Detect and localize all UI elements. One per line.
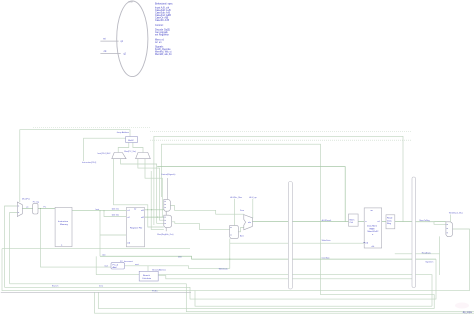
wire add outputs to muxes	[118, 143, 143, 153]
svg-text:Branch: Branch	[143, 274, 151, 277]
block branch calculate	[139, 271, 158, 281]
wire gray return row	[1, 291, 191, 293]
wire mux to PC	[22, 208, 32, 210]
wire instruction bus	[72, 210, 126, 212]
mux1 tick2	[164, 203, 166, 205]
svg-text:Mux(PC): Mux(PC)	[22, 198, 30, 200]
svg-text:q2: q2	[123, 54, 126, 56]
junction dot e	[100, 210, 101, 211]
block before DM	[349, 214, 359, 226]
mux1 tail	[165, 211, 167, 215]
wire RF out2	[145, 216, 164, 218]
svg-text:Instr[25:0] Sh2: Instr[25:0] Sh2	[97, 152, 111, 155]
svg-text:Register File: Register File	[130, 227, 143, 230]
wire branch calc out	[158, 276, 412, 279]
mux alusrc	[230, 226, 239, 239]
svg-text:PCSrc: PCSrc	[152, 291, 158, 293]
svg-text:SignImm: SignImm	[425, 262, 433, 264]
wire right mux out b	[145, 159, 162, 217]
pc mux tick1	[18, 205, 19, 207]
svg-text:Ctrl: Ctrl	[350, 221, 354, 224]
wire aluop down	[234, 199, 236, 225]
block Data Memory	[364, 208, 382, 248]
svg-text:imm: imm	[178, 256, 182, 258]
mux2 tick1	[164, 216, 166, 218]
pipeline bar 1	[288, 182, 292, 290]
wire pcinc out	[147, 266, 149, 272]
wire long bus top2	[98, 144, 434, 308]
mux2 tick2	[164, 219, 166, 221]
wire bottom staircase B	[5, 259, 437, 299]
svg-text:Behavioral: spec: Behavioral: spec	[155, 2, 173, 5]
svg-text:ALUResult: ALUResult	[322, 219, 332, 222]
svg-text:RAM: RAM	[370, 227, 375, 230]
wire next to alusrc loop	[125, 266, 230, 269]
svg-text:Mem32x32: Mem32x32	[368, 231, 380, 233]
svg-text:wr: en: wr: en	[155, 41, 162, 44]
svg-text:dp_mips: dp_mips	[463, 311, 473, 314]
mux trapezoid left	[112, 153, 126, 159]
clock dashed line left	[33, 127, 150, 129]
wire long bus top1	[154, 136, 403, 225]
wire memtoreg to mux	[416, 222, 446, 225]
clock dashed line mid	[150, 130, 412, 132]
mux1 tick1	[164, 200, 166, 202]
svg-text:clk: clk	[104, 51, 108, 53]
wire PC down to incrementer	[41, 209, 112, 268]
svg-text:WriteData: WriteData	[322, 239, 332, 242]
svg-text:WriteBack_Mux: WriteBack_Mux	[449, 211, 463, 214]
wire immediate down	[99, 211, 101, 257]
svg-text:Mem: Mem	[350, 219, 355, 221]
wire PC to IMem	[38, 208, 55, 210]
wire write data row	[230, 242, 364, 244]
svg-text:ReadData: ReadData	[422, 251, 432, 254]
svg-text:I[25:21]: I[25:21]	[112, 208, 119, 210]
svg-text:rst: rst	[103, 38, 106, 41]
svg-text:CaseSlt: A<B: CaseSlt: A<B	[155, 19, 170, 22]
alusrc tick2	[230, 234, 232, 236]
wb tick1	[447, 223, 449, 225]
mux PC source	[17, 202, 22, 217]
alusrc tick1	[230, 227, 232, 229]
svg-text:PC: PC	[43, 206, 46, 208]
block after DM	[386, 215, 395, 229]
svg-text:Memory: Memory	[60, 223, 69, 226]
state input wire q1	[100, 40, 118, 42]
svg-text:MemWr, alu, Fn: MemWr, alu, Fn	[155, 53, 172, 56]
svg-text:Zero: Zero	[240, 210, 245, 212]
register PC	[33, 203, 38, 214]
svg-text:BranchAddress: BranchAddress	[152, 268, 166, 271]
mux regdst lower	[164, 215, 172, 227]
junction dot a	[147, 209, 148, 210]
wire right mux out a	[138, 159, 164, 221]
wire left mux out down across	[114, 159, 164, 227]
wire alusrc bottom loop	[229, 239, 231, 269]
svg-text:ALUSrc_Mux: ALUSrc_Mux	[230, 196, 242, 199]
wire rf write data in	[100, 234, 126, 236]
mux writeback	[446, 222, 453, 237]
mux2 tick3	[164, 222, 166, 224]
pipeline bar 2	[412, 177, 416, 288]
wire RF out1	[145, 209, 164, 211]
svg-text:Control:: Control:	[155, 24, 164, 27]
svg-text:pc: pc	[27, 206, 29, 208]
svg-text:Mux(PC_Src): Mux(PC_Src)	[124, 151, 136, 153]
wire PC mux feedback left1	[5, 206, 18, 287]
svg-text:next: next	[135, 263, 139, 266]
mux2 tail	[165, 228, 167, 232]
svg-text:Mux(RegFile_Dst): Mux(RegFile_Dst)	[157, 233, 173, 236]
mux1 tick3	[164, 206, 166, 208]
wire wb label stem	[450, 215, 452, 222]
svg-text:WriteData: WriteData	[219, 268, 229, 271]
wire lowest loop	[95, 292, 474, 313]
block pc incrementer	[111, 263, 125, 269]
svg-text:Data Mem: Data Mem	[367, 224, 377, 227]
wire mux1 to ALU	[170, 206, 243, 215]
wb tick2	[447, 228, 449, 230]
svg-text:Jump Address: Jump Address	[117, 131, 130, 134]
wire instr branch rr2	[104, 211, 126, 217]
wire wb out loop	[2, 229, 470, 291]
svg-text:I[20:16]: I[20:16]	[112, 214, 119, 216]
wire y274 long	[96, 275, 432, 307]
wire sign imm row	[100, 256, 436, 259]
svg-text:wr: wr	[134, 207, 137, 210]
svg-text:q1: q1	[121, 41, 124, 43]
svg-text:Data: Data	[387, 219, 392, 222]
wd pin tick	[363, 242, 365, 244]
svg-text:set RegWrite: set RegWrite	[155, 34, 169, 37]
wire bottom staircase C	[195, 291, 432, 307]
state input wire q2	[100, 53, 120, 55]
alu symbol	[244, 215, 253, 230]
wire left mux out b	[121, 159, 164, 224]
svg-text:Branch: Branch	[52, 286, 58, 288]
wire ALU result	[252, 221, 445, 223]
junction dot d	[104, 210, 105, 211]
junction dot g	[40, 208, 41, 209]
pc mux tick2	[18, 212, 19, 214]
svg-text:ALU_op: ALU_op	[249, 196, 257, 199]
mux trapezoid right	[136, 153, 151, 159]
svg-text:Calculate: Calculate	[142, 277, 152, 280]
wire branch in stub	[95, 256, 97, 274]
svg-text:Instr: Instr	[95, 208, 99, 211]
clock dashed line low	[150, 139, 412, 141]
wire PC mux feedback left2	[10, 213, 17, 284]
wire mux2 to ALUSrc	[170, 222, 229, 230]
watermark smudge	[455, 303, 469, 309]
state ellipse	[117, 1, 148, 77]
wire cluster v1	[151, 171, 164, 229]
junction dot c	[157, 217, 158, 218]
wire alu ctl down	[252, 199, 254, 219]
svg-text:PC reg: PC reg	[33, 201, 39, 203]
svg-text:wr: wr	[371, 209, 374, 212]
svg-text:ALU: ALU	[240, 234, 244, 237]
wire control bus bright	[157, 167, 345, 222]
svg-text:Control(Signals): Control(Signals)	[161, 173, 176, 176]
svg-text:Overflow: Overflow	[322, 258, 330, 260]
svg-text:Read: Read	[387, 218, 393, 220]
wb tick3	[447, 232, 449, 234]
block Register File	[126, 208, 144, 247]
wire alusrc out	[238, 228, 244, 232]
block Instruction Memory	[55, 207, 72, 246]
wire readdata left of bar	[395, 253, 412, 255]
wire mux1 label stem	[167, 178, 169, 199]
junction dot b	[151, 209, 152, 210]
svg-text:MemToReg: MemToReg	[419, 220, 429, 222]
wire wd long line	[2, 248, 190, 250]
svg-text:Instruction: Instruction	[58, 220, 69, 223]
svg-text:Shift2: Shift2	[128, 139, 134, 142]
wire bottom staircase A	[10, 284, 474, 312]
mux regdst upper	[164, 199, 171, 211]
svg-text:Instruction[25:0]: Instruction[25:0]	[82, 161, 97, 164]
notes text block	[155, 2, 173, 56]
adder block Add	[126, 137, 138, 143]
wire readdata to mux bottom	[416, 236, 440, 275]
wire jump address to PC mux	[20, 130, 130, 202]
junction dot f	[229, 259, 230, 260]
wire shift input into Add	[84, 138, 126, 161]
